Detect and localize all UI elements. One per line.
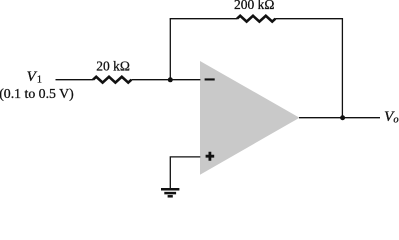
ground symbol	[161, 189, 179, 196]
op-amp U1	[200, 61, 300, 175]
svg-text:20 kΩ: 20 kΩ	[96, 59, 130, 74]
wire: R1 to inverting input	[131, 79, 200, 81]
svg-text:200 kΩ: 200 kΩ	[234, 0, 274, 12]
svg-text:(0.1 to 0.5 V): (0.1 to 0.5 V)	[0, 86, 74, 102]
svg-text:o: o	[393, 115, 398, 126]
wire: feedback top left segment	[170, 18, 237, 20]
wire: feedback right vertical	[341, 19, 343, 118]
wire: feedback left vertical	[169, 19, 171, 80]
node: inverting input junction	[168, 77, 173, 82]
wire: op-amp output	[299, 117, 380, 119]
node: output junction	[340, 115, 345, 120]
resistor R2 (200 kΩ) zigzag	[237, 16, 275, 22]
wire: non-inverting input to ground	[170, 157, 200, 189]
op-amp non-inverting input plus sign	[206, 152, 215, 161]
resistor R1 (20 kΩ) zigzag	[93, 77, 131, 83]
wire: feedback top right segment	[275, 18, 343, 20]
op-amp inverting input minus sign	[205, 78, 215, 80]
svg-text:1: 1	[37, 74, 42, 85]
wire: V1 to resistor R1	[56, 79, 94, 81]
